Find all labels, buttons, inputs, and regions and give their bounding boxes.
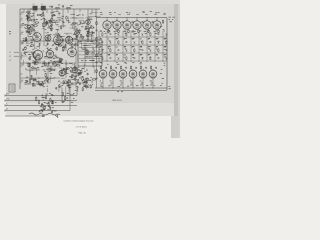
tube V4 (65, 34, 72, 45)
resistor R108 (110, 48, 111, 52)
capacitor C3 (46, 22, 48, 25)
value labels (140, 30, 142, 33)
capacitor C63 (155, 66, 157, 69)
resistor R37 (50, 69, 55, 70)
value labels (65, 80, 89, 88)
wire (24, 83, 44, 85)
resistor R110 (158, 48, 159, 52)
svg-text:V12: V12 (85, 17, 88, 19)
value labels (24, 46, 35, 62)
coil L (53, 34, 57, 37)
coil L (62, 46, 66, 49)
resistor R47 (47, 78, 48, 82)
capacitor C18 (31, 75, 33, 78)
tube V2 (45, 33, 51, 43)
resistor R73 (66, 68, 70, 69)
resistor R18 (28, 28, 29, 33)
value labels (140, 55, 142, 63)
wire (152, 78, 154, 88)
wire right border (166, 18, 168, 90)
resistor R45 (33, 82, 34, 86)
capacitor C59 (115, 66, 117, 69)
resistor R61 (67, 81, 72, 82)
node (49, 5, 73, 8)
capacitor C43 (158, 33, 160, 36)
svg-text:J3: J3 (9, 60, 11, 62)
tube V23 (119, 69, 127, 79)
value labels (108, 39, 111, 47)
wire left border (19, 9, 21, 89)
svg-text:V8: V8 (69, 45, 71, 47)
wire (24, 9, 92, 14)
capacitor C21 (70, 70, 72, 73)
resistor R90 (35, 59, 36, 63)
tube V14 (133, 20, 141, 31)
resistor R105 (118, 40, 119, 44)
wire input bus (5, 99, 77, 101)
wire (138, 31, 140, 62)
resistor R67 (64, 96, 65, 101)
wire (43, 14, 45, 46)
capacitor C28 (79, 73, 81, 76)
value labels (25, 79, 50, 87)
resistor R128 (96, 37, 97, 41)
resistor R104 (150, 32, 151, 36)
switch contact (110, 41, 112, 44)
node (70, 23, 72, 26)
resistor R51 (82, 87, 83, 91)
wire riser (96, 18, 98, 89)
resistor R32 (25, 46, 26, 50)
resistor R3 (37, 14, 42, 15)
wire (62, 9, 64, 27)
resistor R88 (29, 63, 30, 67)
resistor R69 (85, 26, 86, 31)
capacitor C29 (50, 29, 52, 32)
value labels (78, 30, 95, 39)
capacitor C2 (62, 5, 64, 8)
resistor R30 (87, 33, 88, 37)
capacitor C62 (145, 66, 147, 69)
capacitor C23 (79, 82, 81, 85)
wire (65, 41, 67, 51)
resistor R46 (31, 79, 36, 80)
wire (106, 31, 108, 62)
label J3 (9, 60, 11, 62)
value labels (132, 55, 135, 63)
svg-text:V4: V4 (66, 34, 68, 36)
value labels (100, 39, 102, 47)
resistor R115 (118, 29, 119, 33)
wire (114, 31, 116, 62)
resistor R86 (87, 30, 88, 34)
resistor R127 (96, 21, 97, 25)
value labels (100, 55, 103, 63)
capacitor C64 (96, 29, 98, 32)
wire (62, 41, 64, 52)
value labels (26, 37, 34, 47)
resistor R132 (51, 100, 52, 104)
value labels (65, 67, 80, 77)
capacitor C49 (166, 49, 168, 52)
wire (112, 78, 114, 88)
resistor R83 (46, 21, 47, 25)
value labels (25, 63, 37, 72)
resistor R122 (110, 66, 111, 70)
capacitor C31 (66, 67, 68, 70)
value labels (164, 47, 167, 55)
resistor R25 (74, 44, 79, 45)
node (32, 83, 34, 86)
tube V3 (54, 33, 63, 46)
value labels (44, 53, 62, 65)
wire (20, 40, 96, 42)
capacitor C8 (47, 42, 49, 45)
capacitor C5 (53, 14, 55, 17)
resistor R60 (69, 84, 70, 88)
wire (26, 69, 38, 71)
stamp mark (29, 113, 60, 118)
resistor R4 (42, 13, 43, 17)
resistor R53 (63, 80, 64, 85)
resistor R76 (77, 72, 82, 73)
capacitor C27 (78, 72, 80, 75)
svg-text:LINE 1534: LINE 1534 (112, 100, 122, 102)
switch S2 detail box (78, 38, 102, 66)
capacitor C40 (26, 80, 28, 83)
value labels (47, 27, 61, 36)
wire (97, 36, 167, 38)
wire (54, 63, 56, 67)
value labels (61, 63, 76, 77)
node (102, 87, 105, 90)
resistor R39 (45, 62, 46, 67)
node (93, 26, 94, 29)
resistor R71 (30, 45, 34, 46)
value labels (156, 54, 158, 57)
resistor R20 (54, 43, 59, 44)
tube V7 (46, 48, 53, 59)
wire (60, 82, 88, 84)
capacitor C35 (51, 14, 53, 17)
value labels (148, 54, 149, 57)
svg-text:J. R. N. (Rev): J. R. N. (Rev) (76, 127, 87, 129)
resistor R43 (71, 75, 72, 79)
value labels (124, 31, 127, 39)
switch S2 wiring (81, 40, 100, 66)
value labels (25, 28, 33, 43)
resistor R65 (44, 106, 45, 110)
value labels (150, 81, 153, 86)
capacitor C12 (22, 48, 24, 51)
resistor R28 (82, 35, 83, 39)
value labels (124, 39, 127, 47)
value labels (45, 37, 61, 47)
capacitor C66 (96, 61, 98, 64)
capacitor C52 (158, 57, 160, 60)
resistor R14 (79, 29, 80, 33)
capacitor C69 (49, 106, 51, 109)
resistor R50 (84, 82, 88, 83)
value labels (140, 39, 142, 47)
capacitor C25 (51, 111, 53, 114)
wire (126, 18, 128, 21)
resistor R89 (33, 56, 38, 57)
capacitor C11 (24, 52, 26, 55)
tube V9 (84, 48, 89, 56)
value labels (116, 31, 119, 39)
wire (44, 21, 60, 23)
coil L (70, 94, 74, 97)
resistor R75 (87, 77, 88, 81)
resistor R120 (160, 20, 164, 30)
coil L (73, 78, 77, 81)
coil L (34, 61, 38, 64)
resistor R68 (81, 69, 82, 73)
label input (6, 93, 9, 96)
resistor R35 (28, 63, 29, 68)
wire (20, 24, 34, 26)
wire mesh (22, 12, 103, 96)
value labels (27, 56, 45, 68)
value labels (124, 46, 126, 49)
value labels (50, 60, 62, 66)
resistor R121 (100, 66, 101, 70)
switch contact (166, 57, 168, 60)
svg-text:Complete schematic diagram of: Complete schematic diagram of receiver (64, 120, 95, 123)
switch contact (158, 41, 160, 44)
svg-text:V10: V10 (59, 68, 62, 70)
wire (106, 18, 108, 21)
resistor R24 (66, 37, 71, 38)
resistor R58 (38, 100, 39, 105)
node (47, 26, 49, 29)
resistor R9 (35, 22, 40, 23)
wire (122, 78, 124, 88)
resistor R40 (74, 75, 75, 79)
node (86, 27, 89, 30)
svg-text:J1: J1 (9, 52, 11, 54)
node (42, 80, 45, 83)
resistor R125 (140, 66, 141, 70)
capacitor C42 (134, 33, 136, 36)
value labels (164, 31, 167, 39)
value labels (27, 13, 34, 25)
value labels (84, 80, 93, 87)
resistor R98 (28, 13, 29, 18)
resistor R31 (34, 61, 35, 66)
switch contact (166, 33, 168, 36)
coil L (31, 67, 35, 70)
wire (24, 51, 36, 53)
switch contact (102, 49, 104, 52)
node (84, 85, 87, 88)
value labels (124, 55, 126, 63)
wire (136, 18, 138, 21)
wire dashed feeder (100, 14, 166, 16)
resistor R94 (56, 47, 57, 51)
node (49, 25, 51, 28)
value labels (71, 73, 84, 78)
switch contact (134, 41, 136, 44)
capacitor C41 (110, 33, 112, 36)
capacitor C54 (122, 20, 124, 23)
resistor R17 (26, 31, 31, 32)
value labels (132, 31, 135, 39)
wire (42, 65, 52, 67)
value labels (40, 106, 54, 111)
value labels (140, 81, 143, 86)
resistor R48 (33, 79, 37, 80)
switch contact (150, 49, 152, 52)
value labels (164, 39, 167, 47)
capacitor C19 (34, 62, 36, 65)
wire (20, 77, 60, 79)
label tuning note (169, 17, 175, 22)
capacitor C4 (51, 24, 53, 27)
node (51, 67, 52, 70)
value label L-4B (117, 90, 123, 93)
resistor R96 (29, 79, 30, 84)
capacitor C61 (135, 66, 137, 69)
tube V15 (143, 20, 151, 31)
wire (47, 63, 49, 78)
coil L (60, 35, 64, 38)
capacitor C67 (96, 77, 98, 80)
resistor R91 (29, 56, 30, 60)
resistor R72 (25, 37, 26, 42)
node (75, 25, 77, 28)
capacitor C58 (105, 66, 107, 69)
capacitor C45 (126, 41, 128, 44)
coil L (76, 69, 80, 72)
value labels (42, 93, 54, 103)
resistor R99 (29, 17, 30, 21)
value labels (130, 81, 133, 86)
wire input bus (5, 104, 77, 106)
resistor R131 (45, 95, 46, 99)
resistor R87 (88, 33, 93, 34)
transformer T1 (30, 4, 38, 11)
wire (73, 9, 75, 30)
wire (87, 25, 89, 41)
value labels (100, 81, 103, 86)
capacitor C20 (63, 68, 65, 71)
coil L (57, 17, 61, 20)
value labels (148, 47, 151, 55)
resistor R1 (55, 7, 60, 8)
label J1 (9, 52, 19, 54)
tube V21 (99, 69, 107, 79)
resistor R56 (50, 98, 51, 102)
wire input bus (5, 109, 70, 111)
resistor R112 (126, 56, 127, 60)
resistor R118 (148, 29, 149, 33)
wire (20, 62, 76, 64)
node (112, 87, 115, 90)
value labels (116, 55, 118, 63)
capacitor C60 (125, 66, 127, 69)
resistor R6 (26, 12, 30, 13)
resistor R130 (96, 69, 97, 73)
value labels (108, 47, 110, 55)
capacitor C32 (63, 68, 65, 71)
resistor R7 (27, 15, 28, 19)
capacitor C65 (96, 45, 98, 48)
value labels (164, 54, 165, 57)
resistor R23 (57, 45, 62, 46)
wire (156, 18, 158, 21)
capacitor C9 (88, 30, 90, 33)
tube V25 (139, 69, 147, 79)
tube V12 (113, 20, 121, 31)
tube V22 (109, 69, 117, 79)
label input (6, 104, 8, 106)
capacitor C51 (134, 57, 136, 60)
resistor R59 (52, 100, 53, 104)
switch contact (142, 33, 144, 36)
value labels (110, 81, 113, 86)
resistor R106 (142, 40, 143, 44)
transformer T2 (41, 4, 46, 11)
value labels (156, 31, 159, 39)
resistor R64 (39, 111, 44, 112)
svg-text:T2: T2 (41, 4, 43, 6)
wire (102, 78, 104, 88)
wire (97, 52, 167, 54)
resistor R92 (56, 65, 61, 66)
wire (29, 63, 31, 78)
resistor R36 (45, 73, 46, 78)
switch contact (126, 49, 128, 52)
node (29, 32, 32, 35)
value labels (42, 90, 77, 111)
wire bottom border right (95, 90, 167, 92)
wire (27, 9, 29, 37)
capacitor C15 (52, 63, 54, 66)
capacitor C30 (25, 38, 27, 41)
caption tm (78, 133, 85, 135)
wire upper-right bus (96, 9, 167, 18)
capacitor C44 (102, 41, 104, 44)
coil L (77, 41, 81, 44)
wire (70, 17, 84, 19)
capacitor C56 (142, 20, 144, 23)
resistor R101 (26, 26, 31, 27)
svg-text:S2: S2 (79, 38, 81, 40)
resistor R74 (77, 79, 78, 84)
node (87, 25, 88, 28)
resistor R77 (82, 76, 83, 81)
value labels (109, 11, 160, 14)
capacitor C53 (112, 20, 114, 23)
value labels (148, 31, 150, 39)
wire (146, 31, 148, 62)
capacitor C10 (33, 52, 35, 55)
tube V10 (59, 68, 65, 78)
value labels (58, 81, 71, 87)
resistor R82 (45, 22, 46, 26)
svg-text:T1: T1 (33, 4, 35, 6)
capacitor C6 (88, 27, 90, 30)
resistor R19 (23, 40, 28, 41)
value labels (116, 47, 118, 55)
node (122, 87, 125, 90)
capacitor C37 (64, 44, 66, 47)
wire (39, 54, 41, 63)
capacitor C17 (59, 59, 61, 62)
resistor R102 (102, 32, 103, 36)
